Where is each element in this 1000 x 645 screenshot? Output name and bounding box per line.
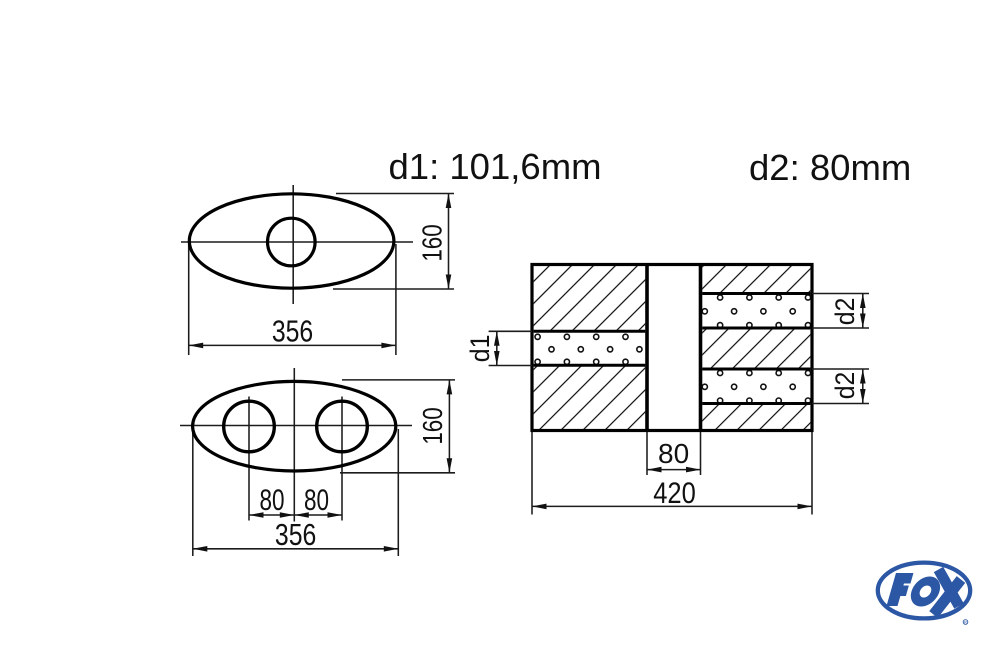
svg-text:d1: d1 [466,335,495,363]
svg-text:356: 356 [272,314,313,348]
svg-text:d2: d2 [831,298,860,326]
svg-text:80: 80 [304,483,329,517]
svg-text:356: 356 [275,517,316,551]
svg-text:d1: 101,6mm: d1: 101,6mm [389,146,602,187]
svg-text:420: 420 [653,476,696,509]
svg-text:d2: 80mm: d2: 80mm [749,147,911,188]
svg-text:R: R [964,620,967,625]
svg-text:d2: d2 [831,372,860,400]
svg-text:160: 160 [417,224,448,261]
svg-text:160: 160 [418,407,449,444]
svg-text:80: 80 [259,483,284,517]
svg-text:80: 80 [658,438,689,469]
